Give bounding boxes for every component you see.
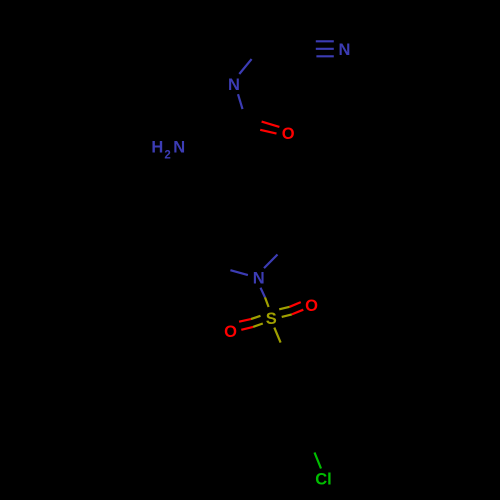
sulfonyl S=O right double bond: red halves (290, 302, 304, 314)
svg-text:O: O (224, 323, 237, 341)
svg-text:N: N (253, 270, 265, 288)
svg-text:2: 2 (164, 149, 170, 161)
svg-text:O: O (305, 297, 318, 315)
wire amide N to carbonyl C (blue half) (238, 94, 243, 109)
wire CH2 to amide N (blue half) (239, 59, 251, 74)
wire piperidine N to left CH2 (blue half) (230, 270, 248, 275)
svg-text:N: N (339, 41, 351, 59)
nitrile triple bond C#N (N-side halves, blue) (316, 41, 334, 56)
wire piperidine N to S: blue half (261, 288, 266, 298)
carbonyl C=O double bond (O-side halves, red) (260, 122, 279, 134)
svg-text:O: O (282, 125, 295, 143)
sulfonyl S=O left double bond: red halves (239, 319, 253, 330)
sulfonyl S=O right double bond: olive halves (279, 307, 292, 317)
svg-text:S: S (266, 310, 277, 328)
wire aryl C to Cl (green half) (315, 453, 322, 469)
svg-text:N: N (228, 76, 240, 94)
wire piperidine N to right CH2 (blue half) (264, 255, 278, 269)
svg-text:Cl: Cl (315, 471, 332, 489)
wire S to aryl C (olive half) (274, 328, 280, 343)
svg-text:H: H (151, 139, 163, 157)
sulfonyl S=O left double bond: olive halves (251, 316, 263, 327)
svg-text:N: N (173, 139, 185, 157)
wire piperidine N to S: olive half (265, 297, 269, 307)
